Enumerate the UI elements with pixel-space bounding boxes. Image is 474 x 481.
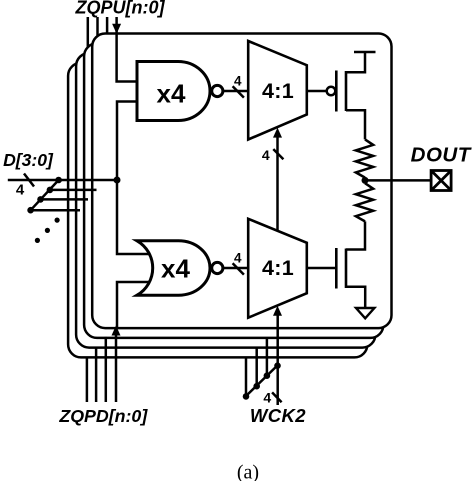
bubble NAND output xyxy=(212,85,223,96)
svg-text:DOUT: DOUT xyxy=(411,143,472,166)
wire D to NAND input B xyxy=(117,102,140,181)
node WCK2 tap 2 xyxy=(264,372,271,379)
wire R2 to NMOS drain xyxy=(346,221,365,249)
transistor Q2 NMOS xyxy=(336,248,346,289)
wire ZQPD[0] from front slice xyxy=(115,328,118,402)
mux U3 4:1 top xyxy=(248,41,307,140)
slice box 2 xyxy=(84,43,383,338)
svg-text:x4: x4 xyxy=(157,79,186,109)
node D tap 3 xyxy=(37,196,44,203)
bus slash D 4 xyxy=(24,174,34,187)
wire NOR to mux2 xyxy=(224,267,248,270)
wire mux1 to PMOS gate xyxy=(307,90,327,93)
bubble NOR output xyxy=(212,262,223,273)
D bus diagonal with taps xyxy=(31,180,59,210)
resistor R1 xyxy=(356,139,373,177)
node D junction xyxy=(114,177,121,184)
ellipsis dots xyxy=(55,218,60,223)
wire ZQPD[2] from slice 3 xyxy=(95,347,98,402)
bus slash 4 (WCK2 mid) xyxy=(273,149,283,159)
wire WCK2 tap to slice 4 xyxy=(245,358,248,397)
node D tap 4 xyxy=(27,207,34,214)
ground xyxy=(356,308,374,318)
wire R1-R2 junction xyxy=(364,178,367,184)
bubble PMOS gate xyxy=(327,87,336,96)
NAND gate U1 xyxy=(137,62,223,121)
wire D[1] to slice 2 xyxy=(50,189,97,192)
slice box 1 (front layer) xyxy=(92,34,391,329)
node WCK2 tap 4 xyxy=(243,393,250,400)
wire WCK2 tap to slice 2 xyxy=(266,338,269,376)
transistor Q1 PMOS xyxy=(336,71,346,112)
wire D[2] to slice 3 xyxy=(41,198,89,201)
wire DOUT xyxy=(365,179,431,182)
svg-text:ZQPU[n:0]: ZQPU[n:0] xyxy=(75,0,166,18)
wire D[3] to slice 4 xyxy=(31,209,80,212)
svg-text:4:1: 4:1 xyxy=(262,79,294,103)
mux U4 4:1 bottom xyxy=(248,219,307,318)
node WCK2 tap 3 xyxy=(253,383,260,390)
node WCK2 tap 1 xyxy=(274,362,281,369)
svg-text:4: 4 xyxy=(234,250,242,265)
svg-text:4: 4 xyxy=(262,147,270,163)
bus slash 4 (NAND out) xyxy=(233,86,244,97)
WCK2 diagonal with taps xyxy=(246,365,278,396)
bus slash 4 (WCK2 bottom) xyxy=(272,392,282,402)
DOUT pad xyxy=(431,171,451,191)
node D tap 2 xyxy=(47,187,54,194)
wire WCK2 into mux2 xyxy=(276,314,279,406)
wire ZQPU[1] to slice 2 xyxy=(106,17,109,45)
wire ZQPU[2] to slice 3 xyxy=(96,17,99,55)
wire WCK2 mux2 to mux1 xyxy=(276,136,279,232)
wire D to NOR input A xyxy=(117,180,150,254)
svg-text:D[3:0]: D[3:0] xyxy=(3,150,54,170)
svg-text:x4: x4 xyxy=(161,253,190,283)
VDD rail bar xyxy=(354,51,376,54)
wire ZQPU internal to NAND input A xyxy=(117,30,140,82)
slice box 3 xyxy=(76,53,375,348)
svg-text:4: 4 xyxy=(16,182,25,199)
node D tap 1 xyxy=(55,177,62,184)
wire PMOS source to VDD xyxy=(346,53,365,72)
wire NMOS source to ground xyxy=(346,287,365,308)
svg-text:4: 4 xyxy=(234,73,242,88)
svg-text:4: 4 xyxy=(263,389,271,405)
wire ZQPD[3] from slice 4 xyxy=(86,357,89,403)
svg-text:4:1: 4:1 xyxy=(262,256,294,280)
wire NAND to mux1 xyxy=(224,90,248,93)
resistor R2 xyxy=(356,183,373,221)
node DOUT junction xyxy=(362,177,369,184)
bus slash 4 (NOR out) xyxy=(233,263,244,274)
wire ZQPU[0] into front slice xyxy=(115,17,118,27)
svg-text:(a): (a) xyxy=(237,462,259,481)
svg-text:ZQPD[n:0]: ZQPD[n:0] xyxy=(58,406,148,426)
slice box 4 (backmost layer) xyxy=(68,63,367,358)
wire PMOS drain to R1 xyxy=(346,110,365,139)
svg-text:WCK2: WCK2 xyxy=(250,405,306,426)
wire WCK2 tap to slice 3 xyxy=(255,348,258,386)
wire ZQPD internal to NOR input B xyxy=(117,282,150,328)
wire mux2 to NMOS gate xyxy=(307,267,337,270)
NOR gate U2 xyxy=(137,241,223,295)
wire ZQPU[3] to slice 4 xyxy=(87,17,90,65)
wire ZQPD[1] from slice 2 xyxy=(105,337,108,402)
wire D[0] input bus xyxy=(8,179,117,182)
